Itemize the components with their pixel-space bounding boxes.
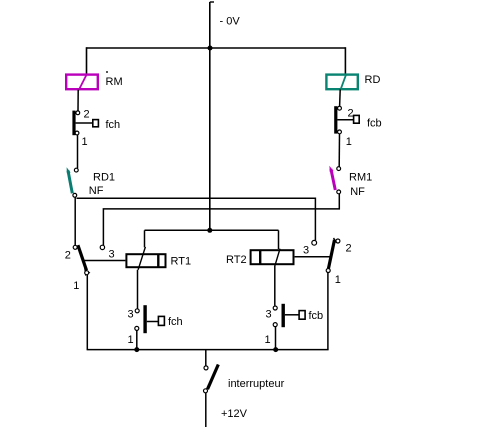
contact RM1 NF <box>329 166 340 194</box>
switch interrupteur <box>204 350 219 427</box>
svg-text:interrupteur: interrupteur <box>228 378 285 390</box>
wire bottom bus <box>87 349 329 351</box>
junction dot bottom right <box>273 347 278 352</box>
pin 2 circle <box>76 111 80 115</box>
wire left selector pin1 down to bottom bus <box>86 275 88 350</box>
wire RD1 to node 2 <box>74 197 76 245</box>
wire RT bus to RT2 <box>278 230 280 249</box>
pin 1 circle <box>75 131 79 135</box>
wire RT bus to RT1 <box>144 230 146 247</box>
svg-text:3: 3 <box>128 309 134 321</box>
svg-text:1: 1 <box>265 334 271 346</box>
svg-text:1: 1 <box>82 136 88 148</box>
svg-text:fch: fch <box>168 316 183 328</box>
svg-text:- 0V: - 0V <box>220 16 241 28</box>
wire RT1 to bottom fch pin3 <box>137 270 139 309</box>
svg-text:3: 3 <box>303 245 309 257</box>
svg-text:3: 3 <box>266 309 272 321</box>
wire center vertical down to RT bus <box>209 48 211 230</box>
svg-text:fcb: fcb <box>367 118 382 130</box>
svg-text:1: 1 <box>73 280 79 292</box>
actuator bar <box>72 111 75 136</box>
svg-text:RD1: RD1 <box>93 172 115 184</box>
switch fcb (bottom right limit switch) <box>273 304 305 327</box>
switch fch (top left limit switch) <box>72 111 98 136</box>
svg-text:1: 1 <box>335 274 341 286</box>
switch fch (bottom left limit switch) <box>135 305 165 333</box>
svg-text:1: 1 <box>346 136 352 148</box>
wire fcb to RM1 <box>338 134 340 167</box>
svg-text:fcb: fcb <box>309 310 324 322</box>
relay coil RT1 <box>126 247 165 270</box>
svg-text:RT2: RT2 <box>226 254 247 266</box>
stray dot near RM <box>106 71 108 73</box>
junction dot RT bus center <box>207 228 212 233</box>
wire right selector pin1 down to bottom bus <box>327 273 329 350</box>
switch fcb (top right limit switch) <box>334 106 359 134</box>
svg-text:1: 1 <box>128 334 134 346</box>
svg-text:NF: NF <box>350 186 365 198</box>
wire bottom fcb pin1 to bus <box>275 327 277 350</box>
svg-text:RM: RM <box>106 76 123 88</box>
svg-text:RM1: RM1 <box>349 172 372 184</box>
svg-text:fch: fch <box>106 119 121 131</box>
svg-text:NF: NF <box>89 185 104 197</box>
switch left selector 2-1 <box>73 245 89 275</box>
relay coil RD <box>326 74 357 90</box>
wire RT bus <box>145 229 279 231</box>
junction dot bottom left <box>134 347 139 352</box>
wire fch to RD1 <box>77 135 79 169</box>
node -0V terminal stub <box>210 2 214 48</box>
wire right drop to RD <box>344 47 346 74</box>
wire top bus <box>87 47 346 49</box>
svg-text:2: 2 <box>65 250 71 262</box>
svg-text:2: 2 <box>346 243 352 255</box>
wire RD to fcb <box>339 90 342 107</box>
svg-text:3: 3 <box>109 249 115 261</box>
relay coil RM <box>66 74 98 90</box>
svg-text:RD: RD <box>365 74 381 86</box>
node 3 left <box>100 245 104 249</box>
wire lever to RT1 left <box>84 260 125 262</box>
wire bottom fch pin1 to bus <box>136 330 138 349</box>
svg-text:+12V: +12V <box>221 408 248 420</box>
wire cross RD1-NF to right pin3 <box>77 198 316 240</box>
wire RT2 to bottom fcb pin3 <box>274 265 276 305</box>
wire left drop to RM <box>86 47 88 74</box>
contact RD1 NF <box>67 167 79 197</box>
wire RM to fch <box>77 90 79 111</box>
svg-text:2: 2 <box>348 108 354 120</box>
switch right selector 2-1 <box>326 238 340 273</box>
node 3 right <box>312 240 317 245</box>
relay coil RT2 <box>251 249 294 266</box>
wire cross RM1-NF to left pin3 <box>103 194 339 246</box>
junction dot top bus / center <box>208 46 213 51</box>
svg-text:RT1: RT1 <box>171 256 192 268</box>
wire RT2 right to right selector <box>295 256 331 258</box>
svg-text:2: 2 <box>84 109 90 121</box>
